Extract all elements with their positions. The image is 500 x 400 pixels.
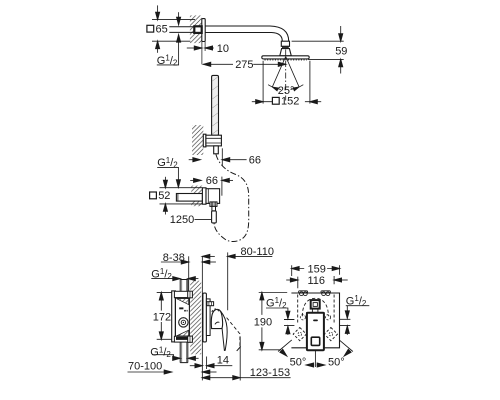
label sq52 — [150, 192, 157, 199]
dimension sq152 extension lines — [263, 61, 310, 104]
wall hatch (holder wall) — [192, 125, 203, 155]
center line (dash-dot) — [285, 50, 287, 101]
wall surface extension lines below flange — [202, 42, 205, 65]
svg-text:116: 116 — [308, 275, 326, 287]
dimension 159 — [292, 265, 340, 276]
extension line 80-110 (handle front) — [227, 252, 229, 310]
angle 25 arc arrows — [268, 85, 281, 90]
mixer body — [175, 298, 189, 337]
dimension 66 lower — [190, 179, 194, 181]
clamp screw bottom — [188, 336, 193, 342]
mounting lug bumps top — [299, 291, 308, 293]
hose stem — [212, 206, 216, 211]
plaster line — [188, 256, 190, 291]
wall hatch (mixer wall) — [190, 281, 201, 355]
escutcheon (edge view) — [203, 293, 207, 342]
shower head plate — [262, 56, 309, 59]
hand shower rod — [212, 75, 219, 135]
svg-text:172: 172 — [153, 312, 171, 324]
svg-text:52: 52 — [158, 190, 170, 202]
svg-text:59: 59 — [335, 46, 347, 58]
handle lever blade — [220, 312, 227, 351]
dimension 190 extension lines — [259, 293, 288, 350]
center square port — [311, 300, 320, 309]
swing center line with arrows — [314, 350, 316, 367]
hose (dashed loop) — [214, 154, 249, 241]
body inlet circle — [179, 318, 188, 327]
wall hatch (elbow wall) — [191, 186, 202, 207]
label sq65 — [147, 25, 154, 32]
dimension 59 arrows — [340, 26, 342, 34]
head cone — [280, 49, 292, 56]
mixer top bar — [174, 291, 190, 297]
svg-text:275: 275 — [235, 59, 253, 71]
label sq152 — [272, 97, 279, 104]
angle 25 V lines — [272, 57, 299, 88]
dimension sq52 arrows — [164, 177, 166, 181]
phantom pulled handle (dashed) — [227, 318, 240, 348]
svg-text:66: 66 — [206, 175, 218, 187]
dimension sq65 extension lines — [152, 20, 195, 42]
dimension 116 — [298, 276, 334, 288]
dimension 10 — [187, 47, 195, 49]
svg-text:190: 190 — [254, 317, 272, 329]
inner frame dashed lines — [298, 295, 334, 324]
svg-text:50°: 50° — [290, 356, 307, 368]
elbow supply stub — [176, 194, 202, 202]
spray nozzles — [265, 59, 307, 61]
supply pipe in wall — [169, 27, 194, 33]
dimension 172 — [160, 293, 162, 340]
svg-text:1250: 1250 — [170, 214, 194, 226]
elbow body — [206, 189, 220, 204]
shower arm — [205, 26, 289, 41]
dimension 172 extension lines — [157, 293, 172, 340]
hose nut knurled — [210, 202, 217, 207]
body interior marks — [179, 307, 183, 309]
hatch wedge top — [176, 299, 188, 305]
svg-text:66: 66 — [249, 155, 261, 167]
wall flange plate (shower arm escutcheon, edge view) — [202, 19, 205, 42]
dashed diamond left — [293, 328, 306, 341]
rough-in box with chamfered bottom corners — [291, 293, 339, 348]
extension line 123-153 — [239, 336, 241, 380]
mixer outlet nipple (bottom) — [180, 342, 188, 363]
clamp screw top — [188, 291, 193, 298]
dimension sq65 arrows — [157, 5, 159, 13]
dimension 14 — [190, 365, 196, 367]
holder body — [206, 135, 222, 146]
svg-text:14: 14 — [217, 354, 229, 366]
svg-text:152: 152 — [281, 96, 299, 108]
hatch wedge bottom — [176, 330, 188, 336]
lug screws right — [322, 292, 326, 296]
dimension 66 upper — [189, 159, 194, 161]
svg-text:65: 65 — [156, 23, 168, 35]
dashed diamond right — [324, 328, 337, 341]
arm nut — [281, 41, 289, 46]
dimension 59 extension lines — [292, 41, 344, 59]
concealed union (bold square) — [194, 26, 201, 33]
mixer inlet pipe (top) — [180, 280, 188, 292]
wall hatch top (shower arm wall) — [190, 15, 202, 43]
50deg line right — [339, 340, 353, 352]
cartridge sleeve — [206, 299, 210, 336]
handle front — [306, 312, 325, 314]
dimension 190 — [261, 293, 263, 350]
svg-text:10: 10 — [217, 43, 229, 55]
neck — [312, 309, 318, 313]
50deg line left — [278, 340, 292, 352]
handle dome — [211, 309, 222, 328]
stop knob — [207, 302, 214, 306]
arch end circles dashed — [300, 315, 305, 320]
svg-text:50°: 50° — [328, 356, 345, 368]
dimension sq152 arrows — [252, 101, 256, 103]
svg-text:159: 159 — [308, 263, 326, 275]
lug screws left — [300, 292, 304, 296]
phantom knob arc (dashed) — [212, 309, 219, 312]
mixer mounting plate — [172, 291, 176, 342]
diamond center marks — [298, 332, 302, 336]
wall surface line — [201, 256, 203, 380]
left port — [284, 320, 294, 326]
holder stem — [214, 146, 219, 154]
mixer bottom bar (dark) — [174, 336, 190, 342]
dimension 275 — [203, 62, 210, 66]
right port — [340, 319, 351, 325]
hose end fitting — [212, 211, 217, 223]
elbow wall plate — [202, 188, 206, 204]
dimension sq52 extension lines — [160, 188, 203, 204]
svg-text:70-100: 70-100 — [128, 361, 162, 373]
holder wall plate — [203, 134, 206, 147]
dashed arch — [302, 298, 328, 316]
